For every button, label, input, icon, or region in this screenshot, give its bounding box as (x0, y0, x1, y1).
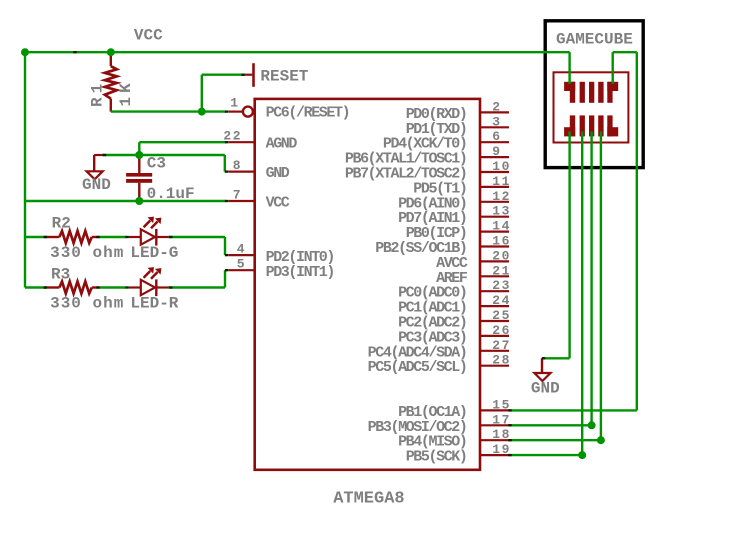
svg-text:2: 2 (492, 99, 501, 114)
svg-text:23: 23 (492, 278, 511, 293)
svg-text:R1: R1 (88, 80, 106, 107)
svg-text:10: 10 (492, 159, 511, 174)
svg-text:24: 24 (492, 293, 511, 308)
svg-text:6: 6 (492, 129, 501, 144)
svg-text:PC6(/RESET): PC6(/RESET) (266, 104, 350, 121)
svg-text:PD3(INT1): PD3(INT1) (266, 264, 334, 281)
svg-text:R3: R3 (51, 266, 70, 284)
svg-text:330 ohm: 330 ohm (50, 244, 124, 262)
svg-text:3: 3 (492, 114, 501, 129)
svg-text:16: 16 (492, 234, 511, 249)
svg-text:RESET: RESET (260, 68, 308, 86)
svg-text:26: 26 (492, 323, 511, 338)
svg-text:PB5(SCK): PB5(SCK) (406, 449, 467, 466)
svg-text:5: 5 (237, 257, 246, 272)
svg-text:AGND: AGND (266, 136, 298, 153)
svg-text:VCC: VCC (266, 195, 290, 212)
svg-text:21: 21 (492, 263, 511, 278)
svg-text:12: 12 (492, 189, 511, 204)
svg-text:15: 15 (492, 397, 511, 412)
svg-text:1K: 1K (117, 79, 135, 106)
svg-text:0.1uF: 0.1uF (147, 185, 195, 203)
svg-text:25: 25 (492, 308, 511, 323)
svg-text:14: 14 (492, 219, 511, 234)
svg-text:VCC: VCC (134, 27, 163, 45)
svg-text:ATMEGA8: ATMEGA8 (333, 490, 404, 509)
svg-text:LED-G: LED-G (130, 244, 178, 262)
svg-text:GAMECUBE: GAMECUBE (556, 30, 633, 48)
svg-text:GND: GND (266, 165, 290, 182)
svg-text:7: 7 (233, 187, 242, 202)
svg-text:20: 20 (492, 248, 511, 263)
svg-text:1: 1 (230, 96, 239, 111)
svg-text:GND: GND (531, 379, 560, 397)
svg-text:C3: C3 (147, 155, 166, 173)
svg-text:LED-R: LED-R (130, 294, 178, 312)
svg-text:17: 17 (492, 412, 511, 427)
svg-text:8: 8 (233, 158, 242, 173)
svg-text:22: 22 (223, 129, 242, 144)
svg-text:GND: GND (82, 176, 111, 194)
svg-text:18: 18 (492, 427, 511, 442)
svg-text:330 ohm: 330 ohm (50, 294, 124, 312)
svg-text:PC5(ADC5/SCL): PC5(ADC5/SCL) (368, 359, 467, 376)
svg-text:4: 4 (237, 241, 246, 256)
svg-text:9: 9 (492, 144, 501, 159)
svg-text:19: 19 (492, 442, 511, 457)
svg-text:11: 11 (492, 174, 511, 189)
svg-text:13: 13 (492, 204, 511, 219)
svg-text:27: 27 (492, 338, 511, 353)
svg-text:28: 28 (492, 353, 511, 368)
svg-text:R2: R2 (52, 215, 71, 233)
